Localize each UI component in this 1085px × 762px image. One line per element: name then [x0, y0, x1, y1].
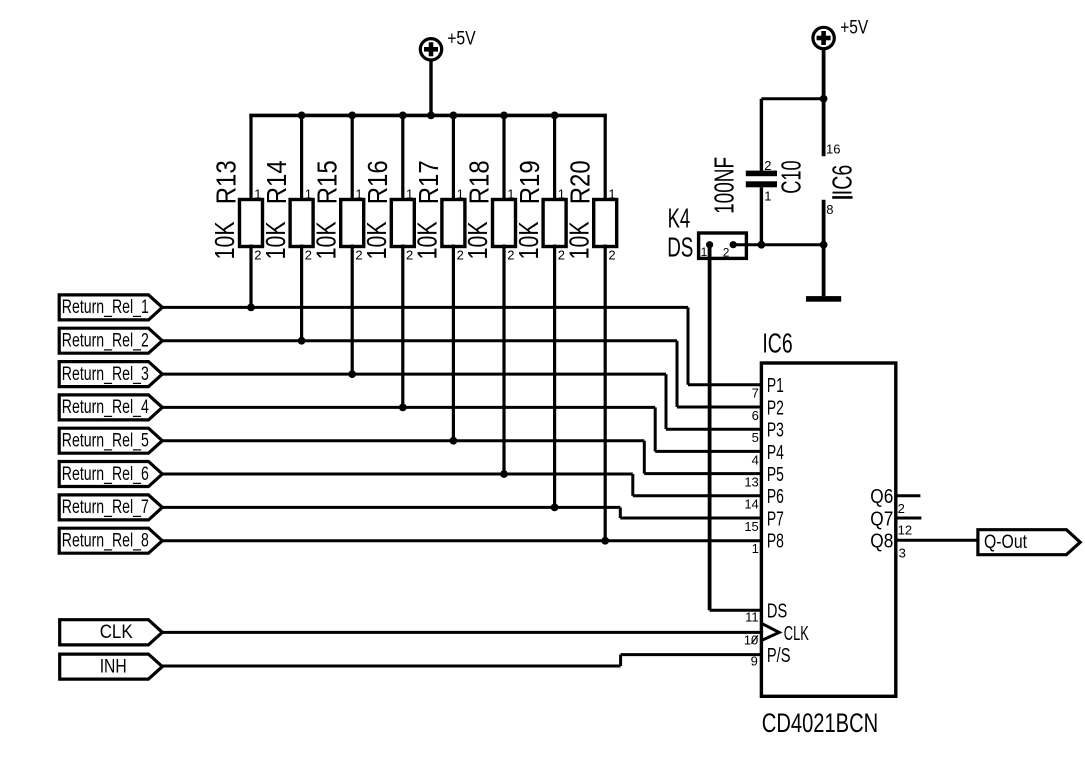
junction R16/Return_Rel_4: [399, 404, 407, 412]
svg-text:Q8: Q8: [870, 531, 893, 553]
wire Return_Rel_7 to P7: [162, 507, 761, 518]
svg-text:16: 16: [826, 142, 840, 157]
pin P6 (pin 14): [744, 486, 784, 512]
wire Return_Rel_4 to P4: [162, 407, 761, 451]
svg-text:R19: R19: [514, 160, 545, 204]
svg-text:1: 1: [608, 186, 615, 201]
net label flag INH: [60, 654, 163, 679]
svg-text:DS: DS: [767, 601, 787, 623]
net label flag Return_Rel_4: [59, 395, 162, 420]
wire C10 top to +5V right: [761, 97, 823, 100]
svg-text:10K: 10K: [412, 221, 443, 259]
wire +5V left to bus: [429, 60, 432, 115]
net label flag Return_Rel_7: [59, 495, 162, 520]
net label flag Return_Rel_8: [59, 528, 162, 553]
wire R18 pin2 to Return_Rel_6 net: [502, 245, 505, 475]
capacitor C10 100NF: [709, 157, 807, 214]
net label flag Return_Rel_6: [59, 462, 162, 487]
svg-text:Return_Rel_7: Return_Rel_7: [62, 497, 149, 518]
junction K4 wire/IC6 pin8: [820, 241, 828, 249]
svg-text:10K: 10K: [361, 221, 392, 259]
svg-text:10K: 10K: [310, 221, 341, 259]
svg-text:P1: P1: [767, 375, 784, 397]
svg-text:IC6: IC6: [827, 165, 858, 196]
svg-text:8: 8: [826, 202, 833, 217]
svg-text:CLK: CLK: [100, 622, 133, 643]
svg-text:10: 10: [744, 632, 758, 647]
pin DS (pin 11): [745, 601, 787, 625]
svg-text:Return_Rel_4: Return_Rel_4: [62, 397, 149, 418]
wire INH to IC6 pin9 (P/S): [162, 655, 761, 666]
power +5V supply (left): [420, 29, 476, 60]
wire R13 pin2 to Return_Rel_1 net: [249, 245, 252, 308]
resistor R18: [462, 160, 515, 262]
svg-text:10K: 10K: [563, 221, 594, 259]
svg-text:P6: P6: [767, 486, 784, 508]
svg-text:7: 7: [752, 386, 759, 401]
svg-text:1: 1: [701, 245, 708, 259]
resistor R13: [209, 160, 262, 262]
wire R19 pin2 to Return_Rel_7 net: [553, 245, 556, 508]
wire Q8 to Q-Out: [896, 539, 978, 542]
net label flag Return_Rel_5: [59, 428, 162, 453]
svg-text:10K: 10K: [513, 221, 544, 259]
wire R16 pin2 to Return_Rel_4 net: [401, 245, 404, 408]
svg-text:R20: R20: [565, 160, 596, 204]
pin P4 (pin 4): [752, 442, 784, 468]
wire R17 pin2 to Return_Rel_5 net: [452, 245, 455, 441]
svg-text:R15: R15: [312, 160, 343, 204]
svg-text:10K: 10K: [209, 221, 240, 259]
svg-text:1: 1: [752, 541, 759, 556]
resistor R17: [412, 160, 465, 262]
power +5V supply (right): [813, 18, 869, 49]
pin P8 (pin 1): [752, 531, 784, 557]
wire R15 pin1 to bus: [351, 115, 354, 201]
svg-text:K4: K4: [668, 202, 691, 233]
wire CLK to IC6 pin10: [162, 631, 761, 634]
svg-text:P/S: P/S: [767, 645, 791, 667]
junction R18/Return_Rel_6: [500, 470, 508, 478]
wire R15 pin2 to Return_Rel_3 net: [351, 245, 354, 375]
net label flag CLK: [60, 620, 163, 645]
svg-text:R17: R17: [413, 160, 444, 204]
wire R14 pin1 to bus: [300, 115, 303, 201]
svg-text:2: 2: [898, 501, 905, 516]
wire C10 pin1 down: [760, 187, 763, 244]
pin P2 (pin 6): [752, 397, 784, 423]
wire Return_Rel_5 to P5: [162, 441, 761, 474]
net label flag Return_Rel_1: [59, 295, 162, 320]
svg-text:P8: P8: [767, 531, 784, 553]
wire R20 pin1 to bus: [604, 115, 607, 201]
svg-text:Return_Rel_5: Return_Rel_5: [62, 431, 149, 452]
pin P1 (pin 7): [752, 375, 784, 401]
junction +5V/C10 wire: [820, 95, 828, 103]
wire K4 pin1 to IC6 DS pin: [710, 245, 762, 611]
svg-text:P7: P7: [767, 508, 784, 530]
wire C10 pin2 up: [760, 99, 763, 171]
svg-text:Return_Rel_8: Return_Rel_8: [62, 531, 149, 552]
junction bus/R18: [500, 112, 508, 120]
svg-text:5: 5: [752, 430, 759, 445]
svg-text:R14: R14: [261, 160, 292, 204]
svg-text:14: 14: [744, 497, 758, 512]
pin CLK (pin 10) with clock triangle: [744, 623, 809, 648]
svg-text:R16: R16: [362, 160, 393, 204]
svg-text:Return_Rel_1: Return_Rel_1: [62, 297, 149, 318]
wire R16 pin1 to bus: [401, 115, 404, 201]
pin P/S (pin 9): [751, 645, 791, 669]
wire Return_Rel_2 to P2: [162, 341, 761, 407]
junction R19/Return_Rel_7: [551, 504, 559, 512]
svg-text:15: 15: [744, 519, 758, 534]
pin 8 label (IC6 VSS): [826, 202, 833, 217]
svg-text:13: 13: [744, 475, 758, 490]
svg-text:C10: C10: [776, 160, 807, 194]
wire R14 pin2 to Return_Rel_2 net: [300, 245, 303, 341]
svg-text:3: 3: [899, 545, 906, 560]
wire R20 pin2 to Return_Rel_8 net: [604, 245, 607, 541]
junction C10/K4 wire: [758, 241, 766, 249]
wire Return_Rel_6 to P6: [162, 474, 761, 496]
svg-text:2: 2: [608, 248, 615, 263]
svg-text:P3: P3: [767, 420, 784, 442]
svg-text:2: 2: [723, 245, 730, 259]
resistor R16: [361, 160, 414, 262]
svg-text:Return_Rel_3: Return_Rel_3: [62, 364, 149, 385]
pin Q7 (pin 12): [870, 508, 921, 537]
resistor R20: [563, 160, 616, 262]
svg-text:6: 6: [752, 408, 759, 423]
svg-text:+5V: +5V: [840, 18, 868, 39]
hidden supply gate IC6 (vertical label): [827, 165, 858, 198]
connector K4 (DS): [667, 202, 746, 262]
junction bus/R15: [348, 112, 356, 120]
svg-text:INH: INH: [100, 657, 127, 678]
junction bus/R16: [399, 112, 407, 120]
svg-text:CLK: CLK: [784, 623, 809, 645]
pin P3 (pin 5): [752, 420, 784, 446]
wire Return_Rel_1 to P1: [162, 307, 761, 384]
svg-text:P5: P5: [767, 464, 784, 486]
resistor R15: [310, 160, 363, 262]
pin 16 label (IC6 VDD): [826, 142, 840, 157]
svg-text:1: 1: [764, 189, 771, 204]
junction +5V/bus: [427, 112, 435, 120]
svg-text:R18: R18: [463, 160, 494, 204]
svg-text:CD4021BCN: CD4021BCN: [762, 708, 878, 738]
wire R19 pin1 to bus: [553, 115, 556, 201]
svg-text:Return_Rel_2: Return_Rel_2: [62, 331, 149, 352]
junction R14/Return_Rel_2: [298, 337, 306, 345]
wire R18 pin1 to bus: [502, 115, 505, 201]
svg-text:P4: P4: [767, 442, 784, 464]
svg-text:Return_Rel_6: Return_Rel_6: [62, 464, 149, 485]
net label flag Q-Out: [978, 530, 1080, 555]
junction bus/R19: [551, 112, 559, 120]
pin P5 (pin 13): [744, 464, 784, 490]
svg-text:R13: R13: [210, 160, 241, 204]
svg-text:+5V: +5V: [447, 29, 476, 50]
svg-text:DS: DS: [667, 232, 693, 263]
svg-text:2: 2: [764, 158, 771, 173]
op IC6 CD4021BCN box: [761, 328, 895, 739]
svg-text:11: 11: [745, 610, 759, 625]
junction bus/R14: [298, 112, 306, 120]
junction bus/R17: [450, 112, 458, 120]
svg-text:100NF: 100NF: [709, 157, 740, 214]
svg-text:P2: P2: [767, 397, 784, 419]
wire K4 pin2 to C10/ground net: [733, 243, 823, 246]
svg-text:Q-Out: Q-Out: [984, 532, 1028, 553]
junction R17/Return_Rel_5: [450, 437, 458, 445]
svg-text:IC6: IC6: [762, 328, 792, 359]
resistor R19: [513, 160, 566, 262]
svg-text:10K: 10K: [260, 221, 291, 259]
pin Q8 (pin 3): [870, 531, 906, 561]
wire R17 pin1 to bus: [452, 115, 455, 201]
wire Return_Rel_8 to P8: [162, 539, 761, 542]
svg-text:4: 4: [752, 452, 759, 467]
junction R13/Return_Rel_1: [247, 304, 255, 312]
svg-text:10K: 10K: [462, 221, 493, 259]
junction R20/Return_Rel_8: [601, 537, 609, 545]
bus wire VCC top: [249, 114, 607, 118]
wire +5V right to IC6 pin16: [822, 49, 826, 157]
wire Return_Rel_3 to P3: [162, 374, 761, 429]
pin P7 (pin 15): [744, 508, 784, 534]
wire IC6 pin8 to ground: [822, 200, 826, 296]
net label flag Return_Rel_3: [59, 362, 162, 387]
svg-text:Q7: Q7: [870, 508, 893, 530]
net label flag Return_Rel_2: [59, 328, 162, 353]
ground symbol: [806, 296, 841, 302]
svg-text:Q6: Q6: [870, 486, 893, 508]
pin Q6 (pin 2): [870, 486, 920, 516]
resistor R14: [260, 160, 313, 262]
svg-text:12: 12: [898, 522, 912, 537]
wire R13 pin1 to bus: [249, 115, 252, 201]
junction R15/Return_Rel_3: [348, 370, 356, 378]
